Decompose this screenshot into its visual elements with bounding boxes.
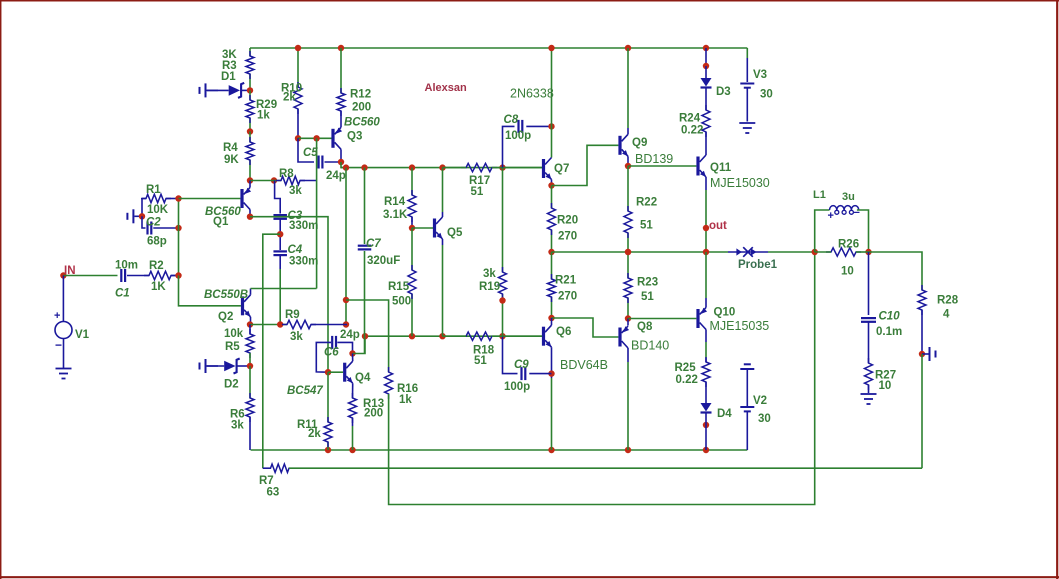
- wire C3 top jog from R8-left node: [275, 181, 281, 214]
- svg-text:R25: R25: [675, 362, 697, 374]
- transistor Q11 MJE15030 NPN: [696, 155, 769, 190]
- svg-text:24p: 24p: [326, 170, 346, 182]
- svg-text:3u: 3u: [842, 191, 855, 203]
- node Q3 collector / C5 out: [338, 159, 344, 165]
- node R14-Q5 base: [409, 225, 415, 231]
- wire Q5 collector lead: [442, 168, 444, 217]
- svg-text:D1: D1: [221, 71, 236, 83]
- node Q6 collector junction: [548, 315, 554, 321]
- node top rail taps right: [625, 45, 709, 51]
- transistor Q2 BC550B NPN: [204, 289, 251, 323]
- svg-text:Q2: Q2: [218, 311, 233, 323]
- wire IN to C1: [63, 275, 117, 277]
- wire Q8 emitter lead: [627, 319, 629, 326]
- node Q2 emitter / R5: [247, 321, 253, 327]
- wire R27 bottom lead: [868, 385, 870, 393]
- svg-text:R5: R5: [225, 341, 240, 353]
- wire V1 top lead: [62, 276, 64, 322]
- svg-text:Q7: Q7: [554, 163, 569, 175]
- svg-text:Q10: Q10: [714, 307, 736, 319]
- capacitor C1: [115, 260, 138, 300]
- resistor R4: [223, 137, 254, 166]
- node out: [703, 220, 727, 232]
- wire C5 right lead: [325, 161, 342, 163]
- svg-text:51: 51: [474, 355, 487, 367]
- node Q4 base / R11 / C6left: [325, 369, 331, 375]
- ground bar symbol at R1/C2: [127, 209, 142, 223]
- wire D3 to R24: [705, 88, 707, 111]
- resistor R1: [141, 184, 171, 216]
- wire Q9 emitter lead: [627, 156, 629, 166]
- wire Q6 base lead rail336: [503, 335, 542, 337]
- svg-text:BD139: BD139: [635, 152, 673, 166]
- wire R15 leads: [411, 228, 413, 336]
- svg-text:100p: 100p: [504, 381, 530, 393]
- ground bar symbol at D1 anode: [200, 83, 219, 97]
- svg-text:2k: 2k: [308, 428, 321, 440]
- svg-text:R23: R23: [637, 277, 658, 289]
- svg-text:R9: R9: [285, 309, 300, 321]
- node C3-C4 midpoint: [277, 231, 283, 237]
- svg-text:2N6338: 2N6338: [510, 87, 554, 101]
- ground bar symbol right: [922, 347, 936, 361]
- resistor R12: [337, 88, 371, 116]
- resistor R11: [297, 417, 332, 447]
- transistor Q3 BC560 PNP: [331, 117, 380, 150]
- wire Q5 base lead: [412, 227, 433, 229]
- svg-text:0.1m: 0.1m: [876, 326, 902, 338]
- node R10 top: [295, 45, 301, 51]
- svg-text:30: 30: [758, 413, 771, 425]
- svg-text:−: −: [55, 338, 62, 352]
- svg-text:0.22: 0.22: [681, 125, 703, 137]
- diode D2 zener: [207, 359, 250, 391]
- svg-text:C8: C8: [504, 114, 519, 126]
- wire R2 right lead: [171, 275, 179, 277]
- node R10-Q3 base-C5: [295, 135, 301, 141]
- svg-text:R24: R24: [679, 113, 701, 125]
- svg-text:200: 200: [352, 102, 371, 114]
- wire C8 right lead: [526, 125, 551, 127]
- node bottom rail taps: [325, 447, 709, 453]
- wire feedback column x346: [345, 168, 347, 325]
- wire Q7 emitter to Q9 base: [552, 145, 619, 185]
- wire C3 to C4: [279, 219, 281, 250]
- wire Q5 emitter lead: [442, 239, 444, 336]
- wire Q2 emitter lead: [250, 317, 252, 325]
- svg-text:63: 63: [267, 487, 280, 499]
- svg-text:10k: 10k: [224, 328, 244, 340]
- resistor R22: [624, 197, 657, 239]
- node R28 ground node: [919, 351, 925, 357]
- svg-text:V1: V1: [75, 329, 90, 341]
- node C2 right: [175, 225, 181, 231]
- wire C5 left leads: [298, 138, 314, 162]
- svg-text:R12: R12: [350, 89, 371, 101]
- resistor R9: [282, 309, 316, 343]
- wire R21 leads: [551, 252, 553, 318]
- wire R23 leads: [627, 252, 629, 319]
- wire top supply rail V3+: [250, 47, 747, 49]
- svg-text:100p: 100p: [505, 130, 531, 142]
- svg-text:C2: C2: [146, 217, 161, 229]
- svg-text:out: out: [709, 220, 727, 232]
- node Q1 collector: [247, 214, 253, 220]
- wire L1 right leg: [857, 210, 869, 252]
- diode D1 zener: [207, 71, 250, 98]
- wire D4 to rail: [705, 413, 707, 451]
- svg-text:Alexsan: Alexsan: [425, 82, 467, 94]
- wire V1 bottom lead: [63, 339, 65, 369]
- wire Q4 collector lead: [352, 354, 354, 362]
- wire Q1 emitter node to R8: [250, 180, 281, 182]
- svg-text:24p: 24p: [340, 329, 360, 341]
- node Q7 emitter: [548, 182, 554, 188]
- svg-text:R19: R19: [479, 281, 500, 293]
- transistor Q8 BD140 PNP: [618, 321, 669, 353]
- voltage source V3 battery: [740, 69, 772, 122]
- svg-text:51: 51: [471, 186, 484, 198]
- node C8 right on 2N6338 column: [548, 123, 554, 129]
- svg-text:330m: 330m: [289, 256, 318, 268]
- ground under V1: [56, 369, 72, 379]
- capacitor C9: [504, 359, 530, 393]
- node Q4 collector / C6: [349, 350, 355, 356]
- transistor Q6 BDV64B NPN: [542, 325, 608, 372]
- svg-text:200: 200: [364, 408, 383, 420]
- wire R28 bottom lead: [921, 310, 923, 354]
- border frame: [0, 0, 1059, 2]
- wire C4 bottom to R9-left node: [279, 255, 281, 325]
- wire R3 column top: [249, 48, 251, 90]
- svg-text:BC550B: BC550B: [204, 289, 248, 301]
- node D3 anode: [703, 63, 709, 69]
- node C9 right on Q6 emitter: [548, 370, 554, 376]
- svg-text:68p: 68p: [147, 236, 167, 248]
- svg-text:270: 270: [558, 231, 577, 243]
- wire C10 column: [868, 252, 870, 315]
- transistor Q7 NPN 2N6338: [542, 158, 569, 180]
- svg-text:MJE15035: MJE15035: [710, 319, 770, 333]
- svg-text:L1: L1: [813, 189, 826, 201]
- wire Q7 emitter lead: [551, 180, 553, 186]
- wire R13 bottom lead: [352, 418, 354, 450]
- svg-text:2k: 2k: [283, 92, 296, 104]
- voltage source V2 battery: [740, 364, 770, 425]
- node R12 top: [338, 45, 344, 51]
- resistor R27: [865, 358, 897, 392]
- resistor R16: [385, 367, 419, 406]
- wire C9 right lead: [529, 373, 551, 375]
- wire Q11 base lead: [628, 165, 696, 167]
- capacitor C10: [861, 311, 902, 339]
- svg-text:51: 51: [641, 291, 654, 303]
- svg-text:D3: D3: [716, 86, 731, 98]
- wire Q11 emitter lead: [705, 177, 707, 252]
- svg-text:+: +: [828, 210, 834, 222]
- svg-text:R26: R26: [838, 239, 859, 251]
- svg-text:10m: 10m: [115, 260, 138, 272]
- node ground stub R1-C2: [139, 213, 145, 219]
- svg-text:270: 270: [558, 291, 577, 303]
- wire D3 top lead: [705, 48, 707, 66]
- wire Q9 collector column: [627, 48, 629, 134]
- wire R22 leads: [627, 166, 629, 252]
- ground bar symbol at D2: [200, 359, 219, 373]
- svg-text:3k: 3k: [290, 331, 303, 343]
- resistor R6: [230, 393, 254, 432]
- wire rail252 to R28 column: [869, 252, 923, 290]
- svg-text:9K: 9K: [224, 154, 239, 166]
- resistor R26: [826, 239, 861, 278]
- resistor R18: [461, 332, 497, 367]
- svg-text:C1: C1: [115, 288, 130, 300]
- inductor L1: [813, 189, 860, 222]
- wire Q8 collector lead: [627, 348, 629, 450]
- svg-text:R7: R7: [259, 475, 274, 487]
- node R9 left / C4 bottom: [277, 321, 283, 327]
- wire R7 right line to output ground node: [289, 467, 922, 469]
- diode D4: [701, 382, 733, 420]
- svg-text:D4: D4: [717, 408, 732, 420]
- node D2-R5-R6: [247, 363, 253, 369]
- resistor R29: [246, 95, 277, 123]
- wire V3 column: [746, 48, 748, 82]
- svg-text:1k: 1k: [257, 110, 270, 122]
- svg-text:C9: C9: [514, 359, 529, 371]
- diode D3: [701, 66, 731, 98]
- svg-text:BC560: BC560: [344, 117, 380, 129]
- svg-text:500: 500: [392, 296, 411, 308]
- resistor R19: [479, 267, 507, 299]
- wire R11 column: [327, 372, 329, 450]
- node IN input: [60, 265, 75, 279]
- svg-text:C10: C10: [879, 311, 901, 323]
- node feedback-R9 junction: [343, 297, 349, 328]
- wire Q3 base: [298, 137, 332, 139]
- node R22-R23-rail252: [625, 249, 631, 255]
- wire C6 left lead jog: [316, 342, 331, 372]
- wire Q10 base lead: [628, 318, 696, 320]
- svg-text:0.22: 0.22: [676, 374, 698, 386]
- wire Q1 collector lead: [249, 210, 251, 217]
- svg-text:V3: V3: [753, 69, 767, 81]
- wire Q6 emitter lead: [551, 347, 553, 450]
- wire Q1 emitter lead: [249, 181, 251, 188]
- resistor R28: [918, 285, 959, 321]
- svg-text:MJE15030: MJE15030: [710, 176, 770, 190]
- resistor R20: [548, 203, 579, 243]
- wire R7 left lead: [263, 467, 271, 469]
- wire R6 leads: [249, 366, 251, 450]
- resistor R13: [349, 393, 385, 423]
- wire R10 bottom lead: [297, 109, 299, 138]
- node 2N6338 column top: [548, 45, 554, 51]
- capacitor C6: [324, 329, 360, 359]
- wire Q3 collector lead: [340, 149, 342, 162]
- node R20-R21-output rail: [548, 249, 554, 255]
- node R1 right: [175, 195, 181, 201]
- wire C3-C4 node branch to R7: [263, 234, 280, 468]
- resistor R10: [281, 82, 302, 114]
- wire R26 leads: [815, 251, 869, 253]
- svg-text:Q1: Q1: [213, 216, 229, 228]
- wire feedback jog to R16 column: [346, 300, 389, 372]
- svg-text:1k: 1k: [399, 394, 412, 406]
- transistor Q4 BC547 NPN: [287, 361, 371, 397]
- resistor R5: [224, 328, 254, 358]
- svg-text:R1: R1: [146, 184, 161, 196]
- transistor Q10 MJE15035 PNP: [696, 307, 769, 334]
- capacitor C3: [273, 210, 318, 232]
- wire R17 leads: [443, 167, 503, 169]
- wire Q4 collector node to mid rail336: [353, 336, 366, 353]
- wire Q4 base lead: [328, 371, 343, 373]
- resistor R15: [388, 265, 416, 308]
- resistor R7: [259, 464, 294, 499]
- resistor R17: [461, 163, 497, 198]
- wire mid rail y168: [341, 167, 544, 169]
- wire R4 leads: [249, 132, 251, 181]
- svg-text:−: −: [854, 207, 860, 219]
- svg-text:R22: R22: [636, 197, 657, 209]
- resistor R8: [276, 168, 305, 197]
- svg-text:BDV64B: BDV64B: [560, 358, 608, 372]
- wire ground node to R7 line: [921, 354, 923, 468]
- svg-text:V2: V2: [753, 395, 767, 407]
- wire R24 to Q11 collector: [705, 132, 707, 155]
- svg-text:Q4: Q4: [355, 372, 371, 384]
- wire R12 to Q3 emitter: [340, 111, 342, 127]
- wire R1 left lead: [142, 199, 146, 217]
- svg-text:1K: 1K: [151, 281, 166, 293]
- svg-text:R28: R28: [937, 295, 959, 307]
- svg-text:51: 51: [640, 220, 653, 232]
- ground under V3: [739, 123, 755, 133]
- svg-text:3.1K: 3.1K: [383, 209, 408, 221]
- wire L1 left leg: [815, 210, 830, 252]
- transistor Q5 NPN: [433, 217, 463, 239]
- wire bottom rail y450: [251, 449, 748, 451]
- resistor R21: [548, 274, 578, 303]
- svg-text:Q5: Q5: [447, 227, 463, 239]
- svg-text:10K: 10K: [147, 204, 169, 216]
- wire vertical Q3-base-node to Q2 collector wire: [316, 138, 318, 288]
- wire V2 to rail: [746, 411, 748, 450]
- wire Q1 collector to R11 column: [250, 217, 328, 373]
- probe Probe1: [728, 247, 778, 271]
- svg-text:BC547: BC547: [287, 385, 323, 397]
- wire C1 to R2: [127, 275, 149, 277]
- svg-text:BD140: BD140: [631, 339, 669, 353]
- svg-text:Q6: Q6: [556, 326, 571, 338]
- resistor R14: [383, 190, 416, 222]
- wire Q6 collector lead: [551, 318, 553, 325]
- svg-text:Q3: Q3: [347, 131, 362, 143]
- wire mid rail y336: [365, 335, 544, 337]
- wire R25 top lead: [705, 330, 707, 363]
- wire Q1 base: [179, 198, 241, 200]
- node mid rail336 taps: [362, 333, 506, 339]
- wire R19 column: [502, 168, 504, 337]
- svg-text:3k: 3k: [289, 185, 302, 197]
- transistor Q1 BC560 PNP: [205, 188, 251, 229]
- node Q1 emitter / R4 / R8 / C3: [247, 177, 277, 183]
- svg-text:Q8: Q8: [637, 321, 653, 333]
- node D4 cathode: [703, 422, 709, 428]
- svg-text:320uF: 320uF: [367, 255, 400, 267]
- resistor R24: [679, 105, 710, 137]
- capacitor C7 column: [364, 168, 366, 354]
- svg-text:R14: R14: [384, 196, 406, 208]
- wire Q3 collector node down to mid rail: [341, 162, 346, 168]
- capacitor C8: [504, 114, 532, 142]
- ground under R27: [861, 394, 877, 404]
- wire R1 right lead: [166, 198, 179, 200]
- svg-text:Q9: Q9: [632, 137, 647, 149]
- wire C8 left lead: [503, 126, 515, 167]
- wire C2 left lead: [142, 216, 146, 228]
- node R23-Q8 emitter: [625, 315, 631, 321]
- wire down to Q2 base: [179, 276, 241, 306]
- wire input node column: [178, 199, 180, 276]
- node output junctions: [625, 249, 709, 255]
- svg-text:C7: C7: [366, 238, 381, 250]
- svg-text:R8: R8: [279, 168, 294, 180]
- svg-text:10: 10: [879, 380, 892, 392]
- wire R5 leads: [249, 325, 251, 367]
- svg-text:R4: R4: [223, 142, 238, 154]
- svg-text:C4: C4: [288, 244, 303, 256]
- svg-text:R21: R21: [555, 275, 577, 287]
- wire C10 to R27: [868, 323, 870, 364]
- svg-text:3k: 3k: [231, 420, 244, 432]
- svg-text:4: 4: [943, 309, 950, 321]
- node L1-R26 left: [812, 249, 818, 255]
- wire R29 leads: [249, 90, 251, 131]
- wire Q7 base lead: [503, 167, 542, 169]
- capacitor C7: [358, 238, 401, 267]
- svg-text:+: +: [54, 310, 60, 322]
- label Alexsan: [425, 82, 467, 94]
- capacitor C2: [146, 217, 167, 248]
- wire R8 right lead to Q3 base column: [300, 180, 317, 182]
- wire R9 right lead: [311, 324, 347, 326]
- wire rail252 to L1/R26 node: [768, 251, 815, 253]
- resistor R2: [144, 260, 176, 293]
- wire C6 right lead jog: [337, 342, 352, 353]
- node on R19 column: [499, 297, 505, 303]
- svg-text:30: 30: [760, 89, 773, 101]
- node Q3 base tap to C6 column: [313, 135, 319, 141]
- wire C9 left lead: [503, 336, 518, 373]
- svg-text:3k: 3k: [483, 268, 496, 280]
- svg-text:Q11: Q11: [710, 162, 732, 174]
- svg-text:R2: R2: [149, 260, 164, 272]
- wire R16 bottom to output feedback line: [389, 252, 815, 505]
- wire top rail to R10: [297, 48, 299, 87]
- svg-text:Probe1: Probe1: [738, 259, 778, 271]
- resistor R25: [675, 357, 711, 387]
- svg-text:10: 10: [841, 266, 854, 278]
- svg-text:R20: R20: [557, 215, 578, 227]
- wire Q4 emitter lead: [352, 383, 354, 398]
- wire R14 leads: [411, 168, 413, 228]
- voltage source V1: [54, 310, 90, 352]
- wire R20 leads: [551, 186, 553, 253]
- node L1-R26 right: [865, 249, 871, 255]
- wire output rail y252: [552, 251, 729, 253]
